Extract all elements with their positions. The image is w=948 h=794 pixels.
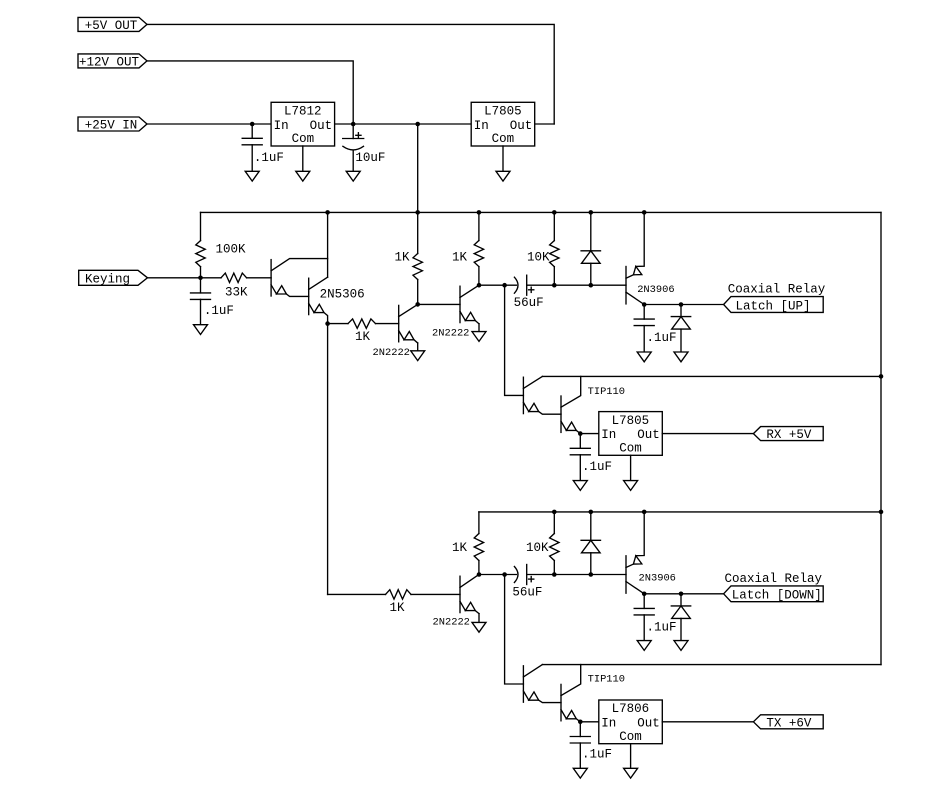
svg-text:2N2222: 2N2222 <box>432 328 469 340</box>
svg-text:1K: 1K <box>355 330 371 344</box>
svg-text:2N3906: 2N3906 <box>637 284 674 296</box>
node UP TIP110 base branch <box>502 283 507 288</box>
ground for Q8 emitter <box>472 622 486 632</box>
ground for Q3 emitter <box>411 351 425 361</box>
node darlington emitter junction <box>325 321 330 326</box>
regulator U3 L7805 (RX) <box>599 412 663 456</box>
wire Q9 collector to Latch DOWN flag <box>644 593 723 595</box>
net flag +5V OUT <box>78 17 147 33</box>
node D3 anode <box>589 572 594 577</box>
node rail/R-1K-A <box>415 210 420 215</box>
net flag RX +5V <box>753 427 823 443</box>
node collector / right bus (UP) <box>879 374 884 379</box>
svg-text:In: In <box>274 119 289 133</box>
transistor Q6 TIP110 first (UP) <box>523 376 561 414</box>
ground for C5 <box>637 352 651 362</box>
svg-text:56uF: 56uF <box>512 585 542 599</box>
svg-text:.1uF: .1uF <box>582 748 612 762</box>
wire C4 to Q5 base <box>527 284 626 286</box>
node rail/D3 (DOWN) <box>589 510 594 515</box>
svg-text:Coaxial Relay: Coaxial Relay <box>725 572 823 586</box>
node UP TIP110 emitter <box>578 431 583 436</box>
node Q8 collector <box>477 572 482 577</box>
transistor Q5 2N3906 (UP) <box>626 212 675 304</box>
ground for C8 <box>637 641 651 651</box>
ground for C9 <box>573 768 587 778</box>
svg-text:In: In <box>474 119 489 133</box>
transistor Q11 TIP110 second (DOWN) <box>561 665 581 722</box>
node DOWN TIP110 emitter <box>578 720 583 725</box>
svg-text:L7805: L7805 <box>612 414 650 428</box>
wire DOWN TIP110 base from C7 node <box>505 575 524 685</box>
wire +12V OUT down to +12V rail node <box>147 61 353 124</box>
svg-text:100K: 100K <box>216 243 247 257</box>
ground for D4 <box>674 641 688 651</box>
svg-text:2N2222: 2N2222 <box>373 347 410 359</box>
wire L7805 Out <box>535 123 555 125</box>
svg-text:Coaxial Relay: Coaxial Relay <box>728 283 826 297</box>
svg-text:Keying: Keying <box>85 272 130 286</box>
label TIP110 (DOWN) <box>588 673 625 685</box>
svg-text:Out: Out <box>510 119 533 133</box>
regulator U1 L7812 <box>271 102 335 146</box>
svg-text:In: In <box>601 428 616 442</box>
wire emitter to L7806 In <box>580 721 599 723</box>
node rail/R-10K-A <box>552 210 557 215</box>
svg-text:L7805: L7805 <box>484 105 522 119</box>
svg-text:RX +5V: RX +5V <box>766 428 812 442</box>
transistor Q2 2N5306 darlington second <box>309 277 328 323</box>
svg-text:L7806: L7806 <box>612 702 650 716</box>
svg-text:Latch [DOWN]: Latch [DOWN] <box>732 589 822 603</box>
svg-text:10uF: 10uF <box>355 151 385 165</box>
capacitor C4 56uF polarized <box>514 275 544 310</box>
regulator U2 L7805 <box>471 102 535 146</box>
net flag +12V OUT <box>78 54 147 70</box>
wire +12V down through rail <box>417 124 419 212</box>
wire DOWN rail <box>479 511 881 513</box>
svg-text:2N3906: 2N3906 <box>639 573 676 585</box>
svg-text:10K: 10K <box>527 250 550 264</box>
resistor R7 1K (DOWN base) <box>386 590 461 616</box>
node rail/D1 <box>589 210 594 215</box>
transistor Q1 2N5306 darlington first <box>271 259 328 297</box>
svg-text:TX +6V: TX +6V <box>766 716 812 730</box>
svg-text:.1uF: .1uF <box>647 621 677 635</box>
svg-text:L7812: L7812 <box>284 105 322 119</box>
resistor R5 1K (UP pullup) <box>452 212 484 285</box>
svg-text:.1uF: .1uF <box>647 331 677 345</box>
ground for D2 <box>674 352 688 362</box>
net flag Latch [UP] <box>724 297 824 314</box>
svg-text:Out: Out <box>637 717 660 731</box>
ground for C1 <box>245 171 259 181</box>
capacitor C8 .1uF (DOWN) <box>634 594 676 641</box>
transistor Q7 TIP110 second (UP) <box>561 376 581 433</box>
svg-text:Com: Com <box>619 441 642 455</box>
wire emitter to L7805 In <box>580 433 599 435</box>
node junction at C2 / +12V <box>351 122 356 127</box>
wire +25V IN to L7812 In <box>147 123 271 125</box>
svg-text:2N5306: 2N5306 <box>320 288 365 302</box>
wire Keying to node <box>148 277 201 279</box>
diode D1 (UP charge) <box>581 212 600 285</box>
node Q5 collector <box>642 302 647 307</box>
svg-text:56uF: 56uF <box>514 296 544 310</box>
resistor R2 33K <box>201 273 272 299</box>
capacitor C3 .1uF <box>191 278 234 325</box>
capacitor C6 .1uF (RX) <box>570 434 612 481</box>
ground for U1 Com <box>296 171 310 181</box>
svg-text:.1uF: .1uF <box>204 304 234 318</box>
svg-text:TIP110: TIP110 <box>588 673 625 685</box>
node rail/R9 (DOWN) <box>552 510 557 515</box>
wire C7 to Q9 base <box>527 574 626 576</box>
capacitor C9 .1uF (TX) <box>570 722 612 769</box>
svg-text:In: In <box>601 717 616 731</box>
wire U3 Com to ground <box>630 455 632 480</box>
net flag Latch [DOWN] <box>724 586 824 603</box>
regulator U4 L7806 (TX) <box>599 700 663 744</box>
ground for C6 <box>573 481 587 491</box>
transistor Q4 2N2222 <box>432 285 479 339</box>
capacitor C2 10uF polarized <box>343 124 386 171</box>
node junction at C1 <box>250 122 255 127</box>
ground for Q4 emitter <box>472 332 486 342</box>
transistor Q8 2N2222 (DOWN) <box>433 575 480 629</box>
svg-text:1K: 1K <box>395 250 411 264</box>
node rail/darlington collector <box>325 210 330 215</box>
node junction +12V branch down <box>415 122 420 127</box>
wire U4 Com to ground <box>630 744 632 769</box>
svg-text:33K: 33K <box>225 286 248 300</box>
label Coaxial Relay (UP) <box>728 283 826 297</box>
label TIP110 (UP) <box>588 386 625 398</box>
ground for U3 Com <box>624 481 638 491</box>
node R6 bottom <box>552 283 557 288</box>
wire Q5 collector to Latch UP flag <box>644 304 723 306</box>
wire U3 Out to RX flag <box>662 433 753 435</box>
capacitor C5 .1uF (UP) <box>634 305 676 353</box>
svg-text:+25V IN: +25V IN <box>85 119 138 133</box>
node DOWN rail / right bus <box>879 510 884 515</box>
node rail/Q-2N3906-A emitter <box>642 210 647 215</box>
svg-text:TIP110: TIP110 <box>588 386 625 398</box>
wire +12V horizontal rail <box>201 211 882 213</box>
svg-text:.1uF: .1uF <box>254 151 284 165</box>
svg-text:+5V OUT: +5V OUT <box>85 19 138 33</box>
label 2N5306 <box>320 288 365 302</box>
wire Q3 collector to Q4 base <box>418 303 460 305</box>
node D4 cathode <box>679 592 684 597</box>
net flag +25V IN <box>78 117 147 133</box>
svg-text:Latch [UP]: Latch [UP] <box>736 299 811 313</box>
wire U2 Com to ground <box>502 146 504 171</box>
wire right-side vertical bus <box>880 212 882 664</box>
svg-text:2N2222: 2N2222 <box>433 617 470 629</box>
wire +5V OUT to L7805 output <box>147 24 554 124</box>
svg-text:Out: Out <box>637 428 660 442</box>
node Keying junction <box>198 276 203 281</box>
resistor R6 10K (UP) <box>527 212 559 285</box>
transistor Q10 TIP110 first (DOWN) <box>523 665 561 703</box>
wire U4 Out to TX flag <box>662 721 753 723</box>
diode D3 (DOWN charge) <box>581 512 600 575</box>
ground for U4 Com <box>624 768 638 778</box>
resistor R9 10K (DOWN) <box>526 512 559 575</box>
wire emitter node down to DOWN channel <box>327 324 329 595</box>
node D2 cathode <box>679 302 684 307</box>
wire darlington emitter to R7 <box>328 593 386 595</box>
svg-text:Com: Com <box>492 132 515 146</box>
resistor R4 1K (darlington to Q3) <box>328 319 399 344</box>
transistor Q3 2N2222 <box>373 304 418 359</box>
net flag TX +6V <box>753 715 823 731</box>
wire L7812 Out to L7805 In <box>335 123 472 125</box>
transistor Q9 2N3906 (DOWN) <box>626 512 676 594</box>
node Q4 collector <box>477 283 482 288</box>
resistor R3 1K (base feed A) <box>395 212 423 304</box>
node Q9 collector <box>642 592 647 597</box>
wire Q8 collector to C7 <box>479 574 516 576</box>
ground for C2 <box>346 171 360 181</box>
svg-text:Com: Com <box>292 132 315 146</box>
node R9 bottom <box>552 572 557 577</box>
diode D2 (UP clamp) <box>671 305 690 353</box>
capacitor C7 56uF polarized (DOWN) <box>512 565 542 600</box>
wire U1 Com to ground <box>302 146 304 171</box>
ground for C3 <box>194 325 208 335</box>
wire DOWN TIP110 collector to right bus <box>542 664 881 666</box>
wire Q4 collector to C4 <box>479 284 516 286</box>
svg-text:10K: 10K <box>526 541 549 555</box>
label Coaxial Relay (DOWN) <box>725 572 823 586</box>
wire UP TIP110 base from C4 node <box>505 285 524 395</box>
svg-text:Com: Com <box>619 730 642 744</box>
wire darlington collector from rail <box>327 212 329 277</box>
diode D4 (DOWN clamp) <box>671 594 690 641</box>
svg-text:.1uF: .1uF <box>582 460 612 474</box>
ground for U2 Com <box>496 171 510 181</box>
node rail/Q9 emitter (DOWN) <box>642 510 647 515</box>
resistor R1 100K <box>196 212 246 277</box>
capacitor C1 .1uF <box>242 124 284 171</box>
svg-text:1K: 1K <box>452 541 468 555</box>
net flag Keying <box>79 270 148 286</box>
node DOWN TIP110 base branch <box>502 572 507 577</box>
svg-text:Out: Out <box>310 119 333 133</box>
svg-text:+12V OUT: +12V OUT <box>79 55 140 69</box>
svg-text:1K: 1K <box>452 250 468 264</box>
node rail/R-1K-B <box>477 210 482 215</box>
node Q3 collector <box>415 302 420 307</box>
node D1 anode <box>589 283 594 288</box>
wire UP TIP110 collector to right bus <box>542 375 881 377</box>
resistor R8 1K (DOWN pullup) <box>452 512 484 575</box>
svg-text:1K: 1K <box>390 601 406 615</box>
